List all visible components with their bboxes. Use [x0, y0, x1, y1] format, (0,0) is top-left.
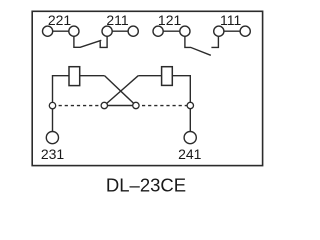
wire: right branch from coil L2 down to terminal 241	[172, 76, 190, 132]
svg-text:111: 111	[220, 12, 241, 28]
svg-text:211: 211	[106, 12, 129, 28]
node D (right)	[187, 102, 193, 108]
wire: crossover diagonal right-top to left-node	[104, 76, 138, 106]
terminal circle 221-b	[69, 26, 79, 36]
terminal circle 121-a	[153, 26, 163, 36]
node A (left)	[49, 102, 55, 108]
svg-text:221: 221	[48, 12, 72, 28]
border frame	[32, 11, 262, 165]
terminal circle 211-a	[102, 26, 112, 36]
wire: link 221 pair	[48, 30, 74, 32]
terminal circle 111-b	[240, 26, 250, 36]
wire: link 111 pair	[219, 30, 245, 32]
coil L1	[69, 67, 80, 86]
wire: link 211 pair	[107, 30, 133, 32]
contact K2 movable blade (from 121 right terminal)	[185, 36, 211, 55]
wire: coil L1 to crossover corner	[80, 75, 105, 77]
contact K2 fixed foot (from 111 left terminal)	[211, 36, 218, 47]
wire: dashed mechanical link left	[53, 105, 105, 107]
terminal 241 circle	[184, 132, 196, 144]
terminal circle 121-b	[180, 26, 190, 36]
wire: link 121 pair	[158, 30, 185, 32]
contact K1 fixed hook (from 211 left terminal)	[100, 36, 107, 47]
coil L2	[162, 67, 173, 86]
node C (centre-right)	[133, 102, 139, 108]
terminal 231 circle	[46, 132, 58, 144]
terminal circle 211-b	[128, 26, 138, 36]
wire: left branch from terminal 231 up and to coil L1	[53, 76, 70, 132]
wire: solid link between centre nodes	[104, 105, 136, 107]
wire: dashed mechanical link right	[136, 105, 190, 107]
svg-text:241: 241	[178, 146, 202, 162]
node B (centre-left)	[101, 102, 107, 108]
terminal circle 221-a	[43, 26, 53, 36]
wire: crossover diagonal left-top to right-node	[105, 76, 136, 106]
wire: crossover corner to coil L2	[138, 75, 161, 77]
svg-text:121: 121	[158, 12, 182, 28]
contact K1 movable blade (from 221 right terminal)	[74, 36, 101, 47]
svg-text:DL–23CE: DL–23CE	[106, 174, 186, 195]
svg-text:231: 231	[41, 146, 65, 162]
terminal circle 111-a	[214, 26, 224, 36]
